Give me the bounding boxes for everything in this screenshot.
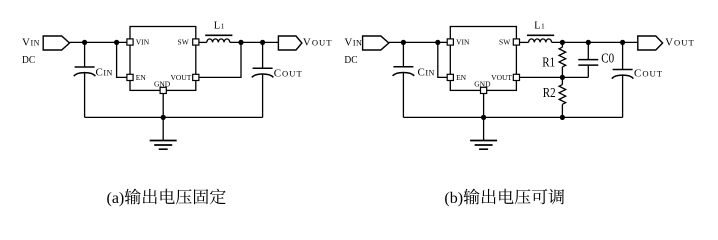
svg-text:COUT: COUT	[274, 68, 303, 80]
wire COUT top lead (b)	[622, 42, 624, 69]
wire C0 bottom lead (b)	[587, 65, 589, 77]
svg-text:GND: GND	[154, 79, 171, 88]
junction FB node (b)	[560, 75, 565, 80]
pin VIN (b)	[447, 39, 453, 45]
inductor L1 (a) core bar	[205, 34, 232, 36]
wire ground rail (a)	[85, 116, 263, 118]
capacitor COUT (b)	[612, 70, 634, 79]
svg-text:R2: R2	[543, 86, 556, 101]
svg-text:VIN: VIN	[22, 36, 40, 48]
svg-text:COUT: COUT	[634, 68, 663, 80]
pin VIN (a)	[127, 39, 133, 45]
wire GND stem (b)	[483, 94, 485, 141]
wire SW to L1 (b)	[520, 41, 529, 43]
junction CIN tap (a)	[82, 40, 87, 45]
junction R1 top (b)	[560, 40, 565, 45]
junction GND rail (a)	[161, 115, 166, 120]
svg-text:DC: DC	[22, 54, 35, 66]
junction R2 rail (b)	[560, 115, 565, 120]
resistor R2	[559, 85, 566, 105]
pin EN (b)	[447, 74, 453, 80]
wire COUT bottom lead (a)	[262, 74, 264, 118]
wire VIN to IC (b)	[389, 41, 447, 43]
junction EN tap (a)	[114, 40, 119, 45]
svg-text:SW: SW	[178, 38, 190, 47]
wire SW to L1 (a)	[199, 41, 207, 43]
ground symbol (b)	[470, 141, 497, 150]
svg-text:VOUT: VOUT	[665, 36, 695, 48]
wire CIN bottom lead (a)	[84, 73, 86, 118]
wire R2 bottom lead (b)	[561, 104, 563, 117]
wire CIN top lead (a)	[84, 42, 86, 67]
IC U1 (a)	[130, 27, 196, 91]
wire COUT bottom lead (b)	[622, 75, 624, 117]
resistor R1	[559, 47, 566, 67]
capacitor CIN (b)	[393, 67, 415, 76]
caption (b) chinese	[464, 189, 565, 205]
wire VOUT pin to FB/C0 (b)	[520, 76, 589, 78]
junction FB tap (a)	[238, 40, 243, 45]
pin SW (a)	[193, 39, 199, 45]
svg-text:VIN: VIN	[344, 36, 362, 48]
wire ground rail (b)	[403, 116, 622, 118]
svg-text:C0: C0	[601, 52, 614, 67]
connector VOUT output tag (a)	[278, 36, 302, 50]
svg-text:DC: DC	[344, 54, 357, 66]
wire R2 top lead (b)	[561, 77, 563, 84]
connector VOUT output tag (b)	[638, 36, 663, 50]
svg-text:VIN: VIN	[456, 38, 470, 47]
svg-text:R1: R1	[542, 55, 555, 70]
svg-text:CIN: CIN	[418, 67, 435, 79]
junction COUT tap (a)	[260, 40, 265, 45]
wire R1 bottom lead (b)	[561, 67, 563, 78]
junction C0 tap (b)	[586, 40, 591, 45]
connector VIN input tag (b)	[363, 36, 389, 50]
wire R1 top lead (b)	[561, 42, 563, 47]
wire EN branch (a)	[117, 42, 127, 77]
junction COUT tap (b)	[620, 40, 625, 45]
capacitor CIN (a)	[74, 67, 96, 76]
junction GND rail (b)	[481, 115, 486, 120]
svg-text:L1: L1	[534, 20, 545, 31]
wire L1 to VOUT tag (a)	[230, 41, 278, 43]
pin SW (b)	[513, 39, 519, 45]
wire VIN to IC (a)	[70, 41, 127, 43]
wire L1 to VOUT tag (b)	[552, 41, 638, 43]
pin GND (b)	[481, 87, 487, 93]
capacitor COUT (a)	[252, 68, 274, 77]
svg-text:CIN: CIN	[96, 67, 113, 79]
wire COUT top lead (a)	[262, 42, 264, 68]
svg-text:L1: L1	[214, 20, 225, 31]
wire EN branch (b)	[438, 42, 447, 77]
caption (a) chinese	[125, 189, 226, 205]
inductor L1 (a) coil	[207, 39, 230, 43]
junction EN tap (b)	[435, 40, 440, 45]
wire GND stem (a)	[162, 94, 164, 141]
svg-text:GND: GND	[474, 79, 491, 88]
pin VOUT (a)	[193, 74, 199, 80]
pin VOUT (b)	[513, 74, 519, 80]
pin GND (a)	[160, 87, 166, 93]
wire C0 top lead (b)	[587, 42, 589, 59]
svg-text:SW: SW	[499, 38, 511, 47]
wire CIN top lead (b)	[402, 42, 404, 66]
pin EN (a)	[127, 74, 133, 80]
inductor L1 (b) core bar	[527, 34, 554, 36]
svg-text:EN: EN	[456, 73, 467, 82]
svg-text:VOUT: VOUT	[303, 36, 333, 48]
wire CIN bottom lead (b)	[402, 72, 404, 117]
wire VOUT pin feedback (a)	[199, 42, 241, 77]
svg-text:(a): (a)	[107, 190, 125, 207]
IC U1 (b)	[450, 27, 516, 91]
connector VIN input tag (a)	[43, 36, 69, 50]
ground symbol (a)	[150, 141, 177, 150]
svg-text:VIN: VIN	[136, 38, 150, 47]
junction CIN tap (b)	[401, 40, 406, 45]
svg-text:EN: EN	[136, 73, 147, 82]
svg-text:(b): (b)	[444, 190, 463, 207]
svg-text:VOUT: VOUT	[491, 73, 512, 82]
capacitor C0	[578, 60, 598, 66]
inductor L1 (b) coil	[529, 39, 552, 43]
svg-text:VOUT: VOUT	[170, 73, 191, 82]
